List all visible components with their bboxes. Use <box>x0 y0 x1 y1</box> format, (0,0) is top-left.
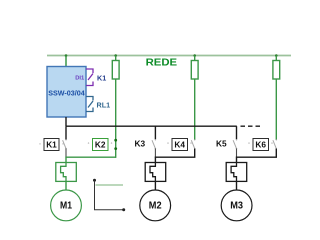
overload relay FT2 <box>145 163 166 182</box>
svg-text:K5: K5 <box>216 138 227 148</box>
label box K2 <box>93 139 109 151</box>
svg-text:M3: M3 <box>230 200 243 211</box>
motor M3 <box>221 190 252 221</box>
svg-text:M2: M2 <box>149 200 162 211</box>
svg-text:K1: K1 <box>97 74 106 83</box>
wire K6 return to M3 branch <box>237 149 277 163</box>
contact K3 (open) <box>152 140 155 148</box>
contact K1 (open) <box>63 140 66 148</box>
fuse F2 <box>194 56 196 61</box>
svg-text:DI1: DI1 <box>75 76 85 82</box>
wire output bus <box>66 125 237 127</box>
contact K6 (open) <box>273 140 276 148</box>
wire overload FT1 to motor M1 <box>65 181 67 190</box>
wire K4 return to M2 branch <box>155 149 194 163</box>
fuse F1 <box>115 56 117 61</box>
legend ramp line (light green) <box>96 184 124 186</box>
svg-text:K2: K2 <box>95 139 106 149</box>
svg-text:K1: K1 <box>46 139 57 149</box>
svg-text:K3: K3 <box>134 138 145 148</box>
wire fuse F3 to contact K6 <box>275 79 277 140</box>
wire contact K5 to overload <box>236 149 238 158</box>
overload relay FT1 (energized, green) <box>56 163 77 182</box>
soft-starter U1 SSW-03/04 <box>47 67 86 118</box>
svg-text:M1: M1 <box>60 200 72 211</box>
label box K4 <box>172 139 188 151</box>
svg-text:SSW-03/04: SSW-03/04 <box>48 89 85 98</box>
contact K4 (open) <box>191 140 194 148</box>
contact K5 (open) <box>233 140 236 148</box>
contact K1 coil-output (purple, on starter) <box>86 69 93 86</box>
contact RL1 (relay output on starter) <box>86 97 93 112</box>
wire output bus dashed continuation <box>241 125 262 127</box>
label box K6 <box>253 139 269 151</box>
legend axis mark <box>93 179 96 182</box>
svg-text:K4: K4 <box>174 139 185 149</box>
wire bus to contact K3 <box>154 126 156 139</box>
wire overload FT2 to motor M2 <box>154 181 156 190</box>
contact K2 (closed, energized) <box>115 139 117 158</box>
junction dots on REDE line <box>65 54 68 57</box>
motor M1 (running) <box>51 190 82 221</box>
wire contact K3 to overload <box>154 149 156 158</box>
wire drop to soft-starter <box>65 56 67 67</box>
overload relay FT3 <box>226 163 247 182</box>
fuse F3 <box>275 56 277 61</box>
wire bus to contact K1 <box>65 126 67 140</box>
wire K2 return to M1 branch <box>66 157 116 162</box>
wire fuse F2 to contact K4 <box>194 79 196 140</box>
wire overload FT3 to motor M3 <box>236 181 238 190</box>
svg-text:RL1: RL1 <box>97 101 111 110</box>
wire contact K1 to junction <box>65 149 67 158</box>
svg-text:K6: K6 <box>255 139 266 149</box>
wire bus to contact K5 <box>236 126 238 139</box>
label box K1 <box>44 139 59 151</box>
motor M2 <box>140 190 171 221</box>
wire REDE bus (mains line) <box>47 55 291 57</box>
svg-text:REDE: REDE <box>146 57 178 68</box>
wire starter output <box>65 117 67 126</box>
wire fuse F1 to contact K2 <box>115 79 117 140</box>
